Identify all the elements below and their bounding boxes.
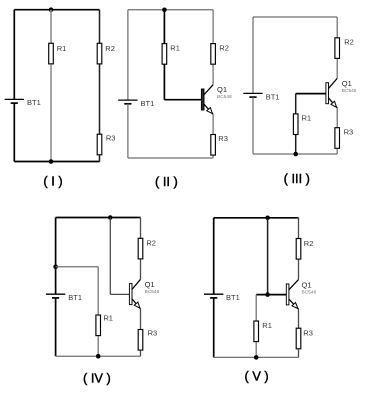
wire: circuit V R2 to collector xyxy=(298,260,300,280)
wire: circuit IV R1 to bottom rail xyxy=(97,336,99,356)
wire: circuit III base wire xyxy=(296,93,326,95)
transistor Q1 (circuit III): base bar xyxy=(326,83,329,104)
wire: circuit III R3 to bottom rail xyxy=(336,149,338,154)
svg-text:R3: R3 xyxy=(303,329,313,338)
battery BT1 (circuit III): short plate xyxy=(249,96,256,98)
transistor Q1 (circuit III): emitter diagonal xyxy=(328,98,337,108)
wire: circuit II base wire xyxy=(164,99,201,101)
wire: circuit IV R3 to bottom rail xyxy=(140,351,142,357)
wire: circuit V R1 branch upper xyxy=(255,295,257,321)
wire: circuit IV left, battery to bottom xyxy=(55,298,57,356)
wire: circuit I R1 branch upper xyxy=(50,10,52,44)
svg-text:BT1: BT1 xyxy=(141,99,155,108)
svg-text:BT1: BT1 xyxy=(226,293,240,302)
wire: circuit IV bottom rail xyxy=(56,355,141,357)
svg-text:( I ): ( I ) xyxy=(43,173,62,188)
transistor Q1 (circuit IV): base bar xyxy=(129,284,132,305)
junction: circuit I top node xyxy=(49,7,54,12)
wire: circuit V top rail xyxy=(214,217,299,219)
resistor R1 (circuit IV) xyxy=(96,315,101,336)
wire: circuit III R1 to bottom rail xyxy=(295,135,297,154)
wire: circuit I top rail xyxy=(14,9,99,11)
svg-text:( II ): ( II ) xyxy=(155,174,178,189)
transistor Q1 (circuit V): emitter diagonal xyxy=(289,299,299,309)
wire: circuit IV base wire xyxy=(110,293,129,295)
resistor R3 (circuit I) xyxy=(97,134,102,155)
svg-text:R2: R2 xyxy=(219,43,229,52)
wire: circuit I bottom rail xyxy=(14,161,99,163)
wire: circuit III emitter to R3 xyxy=(336,108,338,128)
resistor R3 (circuit II) xyxy=(211,135,216,156)
transistor Q1 (circuit IV): emitter diagonal xyxy=(132,299,141,309)
battery BT1 (circuit V): short plate xyxy=(210,297,217,299)
transistor Q1 (circuit II): emitter diagonal xyxy=(204,104,213,114)
junction: circuit V base node xyxy=(265,292,270,297)
svg-text:R1: R1 xyxy=(170,43,180,52)
wire: circuit V divider branch vertical xyxy=(267,218,269,295)
battery BT1 (circuit IV): long plate xyxy=(46,293,65,295)
wire: circuit IV R1 feed vertical xyxy=(97,267,99,315)
svg-text:BT1: BT1 xyxy=(266,92,280,101)
transistor Q1 (circuit II): emitter arrowhead xyxy=(207,108,213,114)
wire: circuit IV base branch vertical xyxy=(109,218,111,295)
junction: circuit I bottom node xyxy=(49,159,54,164)
resistor R2 (circuit V) xyxy=(296,239,301,260)
wire: circuit V bottom rail xyxy=(214,356,299,358)
wire: circuit II emitter to R3 xyxy=(212,114,214,134)
transistor Q1 (circuit IV): collector diagonal xyxy=(132,279,141,289)
wire: circuit III top rail xyxy=(253,16,337,18)
wire: circuit II top rail left xyxy=(128,9,164,11)
resistor R3 (circuit III) xyxy=(335,128,340,149)
wire: circuit I R2 to R3 xyxy=(99,64,101,134)
wire: circuit I left, battery to bottom xyxy=(13,103,15,161)
svg-text:R3: R3 xyxy=(344,128,354,137)
battery BT1 (circuit IV): short plate xyxy=(52,297,59,299)
wire: circuit I R1 branch lower xyxy=(50,64,52,161)
resistor R2 (circuit III) xyxy=(335,38,340,59)
transistor Q1 (circuit II): collector diagonal xyxy=(204,85,213,95)
junction: circuit IV bottom node xyxy=(96,354,101,359)
battery BT1 (circuit V): long plate xyxy=(204,293,223,295)
svg-text:( V ): ( V ) xyxy=(245,369,269,384)
wire: circuit IV left, top to battery xyxy=(55,218,57,295)
resistor R1 (circuit I) xyxy=(49,43,54,64)
wire: circuit V left, top to battery xyxy=(213,218,215,294)
resistor R3 (circuit V) xyxy=(296,328,301,349)
wire: circuit II R2 to collector xyxy=(212,65,214,85)
resistor R1 (circuit II) xyxy=(162,44,167,65)
svg-text:R2: R2 xyxy=(304,239,314,248)
svg-text:Q1: Q1 xyxy=(217,85,227,94)
svg-text:R1: R1 xyxy=(57,44,67,53)
resistor R1 (circuit V) xyxy=(254,321,259,342)
junction: circuit V top node xyxy=(265,216,270,221)
resistor R3 (circuit IV) xyxy=(138,330,143,351)
transistor Q1 (circuit II): base bar xyxy=(201,89,204,110)
wire: circuit II R1 to base level xyxy=(163,65,165,100)
resistor R1 (circuit III) xyxy=(293,114,298,135)
wire: circuit II right branch to R2 xyxy=(212,10,214,44)
junction: circuit IV top node xyxy=(108,215,113,220)
wire: circuit II left, top to battery xyxy=(127,10,129,100)
junction: circuit IV left node xyxy=(53,264,58,269)
junction: circuit II top node xyxy=(162,8,167,13)
svg-text:Q1: Q1 xyxy=(342,79,352,88)
wire: circuit III left, battery to bottom xyxy=(252,97,254,154)
wire: circuit II left, battery to bottom xyxy=(127,104,129,158)
transistor Q1 (circuit IV): emitter arrowhead xyxy=(134,302,140,308)
battery BT1 (circuit II): long plate xyxy=(118,99,137,101)
transistor Q1 (circuit III): emitter arrowhead xyxy=(331,101,337,107)
wire: circuit II R1 branch upper xyxy=(163,10,165,44)
wire: circuit V R3 to bottom rail xyxy=(298,349,300,357)
svg-text:R1: R1 xyxy=(262,321,272,330)
wire: circuit II top rail right xyxy=(164,9,213,11)
battery BT1 (circuit I): short plate xyxy=(11,102,18,104)
svg-text:( IV ): ( IV ) xyxy=(83,370,111,385)
svg-text:( III ): ( III ) xyxy=(284,171,310,186)
resistor R2 (circuit IV) xyxy=(138,238,143,259)
svg-text:R3: R3 xyxy=(106,134,116,143)
svg-text:R1: R1 xyxy=(302,114,312,123)
transistor Q1 (circuit V): emitter arrowhead xyxy=(292,303,298,309)
battery BT1 (circuit I): long plate xyxy=(5,98,24,100)
transistor Q1 (circuit III): collector diagonal xyxy=(328,78,337,88)
svg-text:R3: R3 xyxy=(148,329,158,338)
wire: circuit II bottom rail xyxy=(128,157,213,159)
wire: circuit IV top rail xyxy=(56,217,141,219)
wire: circuit V right branch to R2 xyxy=(298,218,300,239)
wire: circuit V base wire xyxy=(256,294,286,296)
svg-text:Q1: Q1 xyxy=(145,280,155,289)
svg-text:R2: R2 xyxy=(344,38,354,47)
wire: circuit III base corner down to R1 xyxy=(295,94,297,114)
wire: circuit IV R1 feed horizontal xyxy=(56,266,99,268)
battery BT1 (circuit II): short plate xyxy=(124,103,131,105)
wire: circuit III left, top to battery xyxy=(252,17,254,93)
svg-text:R1: R1 xyxy=(103,313,113,322)
wire: circuit V left, battery to bottom xyxy=(213,298,215,358)
wire: circuit III right branch to R2 xyxy=(336,17,338,38)
wire: circuit III bottom rail xyxy=(253,153,337,155)
wire: circuit V emitter to R3 xyxy=(298,309,300,328)
junction: circuit III bottom node xyxy=(293,152,298,157)
wire: circuit IV right branch to R2 xyxy=(140,218,142,239)
resistor R2 (circuit II) xyxy=(211,44,216,65)
transistor Q1 (circuit V): base bar xyxy=(286,284,289,305)
svg-text:R2: R2 xyxy=(146,239,156,248)
transistor Q1 (circuit V): collector diagonal xyxy=(289,280,299,290)
wire: circuit V R1 to bottom rail xyxy=(255,342,257,357)
resistor R2 (circuit I) xyxy=(97,43,102,64)
wire: circuit I left, top to battery xyxy=(13,10,15,100)
battery BT1 (circuit III): long plate xyxy=(243,92,262,94)
wire: circuit IV emitter to R3 xyxy=(140,309,142,330)
svg-text:BC548: BC548 xyxy=(145,289,160,295)
wire: circuit II R3 to bottom rail xyxy=(212,156,214,159)
svg-text:BC548: BC548 xyxy=(342,88,357,94)
svg-text:BT1: BT1 xyxy=(27,98,41,107)
svg-text:Q1: Q1 xyxy=(302,280,312,289)
wire: circuit IV R2 to collector xyxy=(140,259,142,279)
wire: circuit III R2 to collector xyxy=(336,59,338,79)
svg-text:R2: R2 xyxy=(105,44,115,53)
wire: circuit I right branch to R2 xyxy=(99,10,101,44)
svg-text:BC548: BC548 xyxy=(217,94,232,100)
junction: circuit V bottom node xyxy=(254,355,259,360)
svg-text:BC548: BC548 xyxy=(302,289,317,295)
svg-text:R3: R3 xyxy=(218,134,228,143)
svg-text:BT1: BT1 xyxy=(68,293,82,302)
wire: circuit I R3 to bottom rail xyxy=(99,155,101,161)
